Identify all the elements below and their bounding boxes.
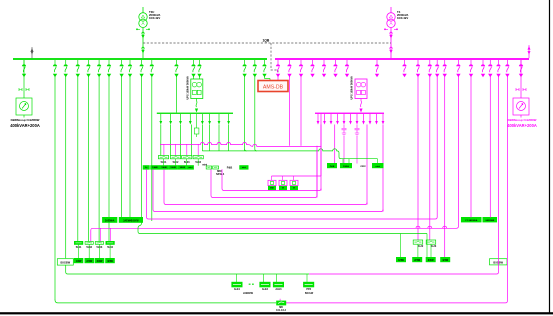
svg-text:1/4W: 1/4W — [76, 260, 82, 263]
svg-text:5L22: 5L22 — [418, 245, 424, 248]
svg-text:1/4HE: 1/4HE — [152, 166, 158, 169]
svg-text:YJ 2AEM#A: YJ 2AEM#A — [465, 219, 478, 222]
svg-text:P&B#: P&B# — [343, 166, 350, 168]
svg-text:1QB: 1QB — [263, 38, 270, 42]
svg-text:4/4W: 4/4W — [107, 260, 113, 263]
svg-text:AMS-DB: AMS-DB — [263, 84, 284, 90]
svg-text:mini: mini — [376, 166, 381, 168]
svg-text:5L01: 5L01 — [76, 246, 82, 249]
svg-text:1X1-C2-4: 1X1-C2-4 — [276, 309, 287, 312]
svg-text:5L01: 5L01 — [161, 161, 167, 164]
svg-text:5L03: 5L03 — [97, 246, 103, 249]
svg-text:P&B: P&B — [330, 166, 335, 168]
svg-text:ALE3: ALE3 — [275, 288, 282, 291]
svg-text:5L04: 5L04 — [195, 161, 201, 164]
svg-text:ALE1: ALE1 — [234, 288, 241, 291]
svg-text:2/4W: 2/4W — [86, 260, 92, 263]
svg-text:5L04: 5L04 — [107, 246, 113, 249]
svg-text:NBRNcosφ=0.92RNW: NBRNcosφ=0.92RNW — [11, 118, 40, 122]
svg-text:5L02: 5L02 — [86, 246, 92, 249]
svg-text:2AEM#B BYW: 2AEM#B BYW — [123, 219, 139, 222]
svg-text:2AEM#A: 2AEM#A — [105, 219, 115, 222]
svg-text:2/4W: 2/4W — [414, 259, 420, 262]
svg-text:MDi: MDi — [270, 188, 274, 190]
svg-text:5L03: 5L03 — [184, 161, 190, 164]
svg-text:4/4W: 4/4W — [442, 259, 448, 262]
svg-text:mini: mini — [242, 167, 247, 169]
svg-text:1/4W: 1/4W — [398, 259, 404, 262]
svg-text:P&B: P&B — [227, 165, 233, 169]
svg-text:3/4W: 3/4W — [97, 260, 103, 263]
svg-text:1/4HE: 1/4HE — [180, 166, 186, 169]
svg-text:400kVAR+200A: 400kVAR+200A — [507, 123, 537, 128]
svg-text:PP3: PP3 — [306, 288, 311, 291]
svg-text:3/4W: 3/4W — [428, 259, 434, 262]
svg-text:UPS 160kW 500kVA: UPS 160kW 500kVA — [186, 76, 189, 99]
svg-text:10/0.4kV: 10/0.4kV — [149, 16, 160, 20]
svg-text:NP42-4: NP42-4 — [216, 173, 225, 176]
svg-text:NBRNcosφ=0.92RNW: NBRNcosφ=0.92RNW — [508, 118, 537, 122]
svg-text:5L02: 5L02 — [173, 161, 179, 164]
svg-text:10/0.4kV: 10/0.4kV — [397, 16, 408, 20]
svg-text:MB: MB — [279, 307, 283, 309]
svg-text:UPS 160kW 500kVA: UPS 160kW 500kVA — [351, 76, 354, 99]
svg-text:1/4HE: 1/4HE — [161, 166, 167, 169]
svg-text:2AEM#B: 2AEM#B — [485, 219, 494, 222]
svg-text:ALE2: ALE2 — [262, 288, 269, 291]
svg-text:2AEM#W: 2AEM#W — [243, 292, 254, 295]
svg-text:BXGBW: BXGBW — [61, 262, 71, 265]
svg-text:BXULW: BXULW — [305, 293, 314, 295]
svg-text:5L23: 5L23 — [431, 245, 437, 248]
svg-text:mini: mini — [361, 165, 366, 168]
svg-text:400kVAR+200A: 400kVAR+200A — [10, 123, 40, 128]
svg-text:1/4HE: 1/4HE — [170, 166, 176, 169]
svg-text:mini: mini — [188, 167, 193, 169]
